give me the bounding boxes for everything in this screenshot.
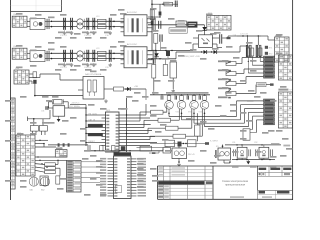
wire C22 C23 stubs (64, 50, 66, 63)
wires to grounds left-mid (154, 59, 173, 91)
resistor RB4 (173, 134, 186, 138)
connector XP5 (275, 35, 289, 62)
resistor RB1 (151, 110, 163, 114)
resistor R87 (vertical) (247, 48, 250, 56)
wire bus right stub (162, 149, 164, 151)
capacitor C64 (159, 34, 162, 41)
node B1 (113, 21, 115, 23)
wire R32 to node (124, 88, 147, 90)
svg-text:VT3: VT3 (188, 111, 191, 113)
capacitor C84 (198, 96, 200, 100)
capacitor C14 (87, 18, 89, 30)
R84 body (264, 68, 275, 71)
node top (151, 3, 153, 5)
capacitor C13 (71, 18, 73, 30)
svg-text:C14 0,1: C14 0,1 (84, 35, 92, 37)
svg-text:+24B_VENT +24B: +24B_VENT +24B (184, 56, 200, 58)
ground under C15 (92, 31, 96, 35)
svg-text:PEC-45: PEC-45 (188, 154, 195, 156)
resistor R42 (112, 146, 116, 151)
title block name cell text (222, 179, 249, 187)
svg-text:принципиальная: принципиальная (225, 184, 246, 187)
choke L12 (two windings) (77, 19, 84, 29)
wire crystal feedback left (49, 102, 53, 108)
resistor R53 (45, 170, 56, 173)
wire XP3 to row (60, 147, 62, 150)
wire C12 C13 stubs (64, 18, 66, 31)
ground under C16 (108, 31, 112, 35)
resistor R102 (188, 140, 197, 147)
DD2 internal sub-block (115, 186, 121, 193)
wire relay top feed (28, 110, 51, 126)
node A2 (51, 53, 53, 55)
net label flag SPI (88, 124, 103, 127)
ground under C23 (70, 63, 74, 67)
connector XP3 (55, 150, 67, 158)
capacitor C26 (109, 50, 111, 62)
relay K5 cluster (215, 145, 231, 164)
wire K4 bottom lead (178, 159, 180, 163)
wires U1 right pins (147, 19, 153, 32)
wires base resistors to transistors (163, 105, 202, 136)
vertical resistor RE1 (195, 125, 200, 136)
ground bottom-right (246, 160, 250, 165)
voltage monitor U6 (255, 145, 272, 160)
relay K4 (172, 143, 187, 159)
capacitor C71 (electrolytic) (246, 36, 251, 57)
wires DD2 left pins (108, 159, 114, 196)
wire y58.8 bus (148, 58, 176, 60)
wires U3 left pins (193, 38, 198, 51)
resistor R72v (163, 65, 167, 76)
module label box (169, 28, 187, 33)
svg-text:CLK 16MHz: CLK 16MHz (69, 106, 80, 108)
resistor R51 (45, 163, 56, 166)
wires XP2 right pins middle (35, 156, 67, 172)
revision box top-left (11, 0, 62, 12)
svg-text:R71: R71 (269, 48, 272, 50)
R91 body (264, 99, 275, 102)
resistor R41 (100, 146, 104, 151)
value labels row 1 (60, 16, 110, 37)
wires U3 right pins (212, 38, 222, 48)
ground under C24 (86, 63, 90, 67)
wire bus 1 left segment (53, 20, 78, 22)
wires XP2 right pins upper (35, 140, 56, 147)
node A1 (51, 21, 53, 23)
diode VD32 mark (127, 87, 130, 91)
ground under C25 (92, 63, 96, 67)
DD2 right net labels (138, 158, 147, 197)
wire crystal feedback right (63, 102, 68, 108)
buzzer BA1 (29, 177, 38, 192)
wire y52 diode link (176, 51, 240, 53)
ground below G1 (57, 116, 61, 122)
capacitor C53 (68, 143, 70, 146)
capacitor C52 (63, 143, 65, 146)
wires transistor emitters to right (169, 113, 249, 126)
wire row to supply bus (48, 145, 88, 151)
svg-text:RESET: RESET (89, 141, 96, 143)
R86 body (264, 75, 275, 78)
DD2 left net labels (100, 158, 106, 197)
wire RE1 leads (196, 113, 198, 141)
transistor VT3 (190, 96, 199, 114)
wires relay leads down (33, 131, 46, 135)
junction dots on DD1 bus (126, 114, 127, 134)
capacitor C23 (71, 50, 73, 62)
inductor L24 (98, 57, 107, 61)
svg-text:C92: C92 (254, 142, 257, 144)
capacitor C61 (175, 1, 178, 8)
resistor R101 (165, 140, 175, 146)
ground below DA1 (104, 99, 108, 103)
capacitor C83 (186, 96, 188, 100)
R92 body (264, 103, 275, 106)
voltage regulator DA1 (83, 73, 104, 99)
title block revision table lines (158, 166, 214, 199)
wire down from DA1 out (145, 89, 147, 100)
connector XP2 (16, 133, 35, 176)
terminal strip XT1 (11, 98, 16, 189)
svg-text:DAT_IN: DAT_IN (89, 118, 96, 121)
node DA1 out (125, 88, 127, 90)
wire bus y24.8 (148, 24, 205, 26)
resistor R63 (154, 33, 158, 43)
diode VD74 mark (214, 50, 217, 54)
wires net labels to RP (226, 62, 231, 94)
ground under C14 (86, 31, 90, 35)
svg-text:+24B: +24B (232, 35, 237, 37)
R94 body (264, 110, 275, 113)
capacitor C51 (58, 143, 60, 146)
nodes electrolytic bus (242, 35, 259, 36)
wires bus to DD1 (85, 114, 101, 143)
optocoupler U4 (243, 129, 257, 140)
crystal ZQ1 (52, 99, 63, 104)
diode VD72 (166, 51, 170, 59)
resistor R61 (164, 2, 173, 6)
connector X1 (12, 14, 27, 27)
title block footer marks (230, 196, 272, 198)
title block right section headers (259, 168, 292, 194)
capacitor C16 (109, 18, 111, 30)
wire supply bus above DD2 (88, 150, 163, 152)
svg-text:C91: C91 (232, 142, 235, 144)
wire top horizontal (152, 3, 178, 5)
wire XS3 pin to R3 (29, 73, 33, 75)
svg-text:C22 0,1: C22 0,1 (60, 67, 68, 69)
DD1 left net labels (71, 103, 97, 143)
wires DD2 right pins (131, 159, 137, 196)
R97 body (264, 122, 275, 125)
net label flag OBMEN (88, 133, 103, 136)
svg-text:Схема электрическая: Схема электрическая (222, 179, 249, 183)
capacitor C62 (158, 21, 161, 29)
R96 body (264, 118, 275, 121)
transistor VT2 (177, 96, 186, 114)
wires DD2 to K4 cluster (137, 148, 164, 155)
net labels mid-right column (218, 60, 231, 98)
diode VD31 (33, 80, 36, 84)
capacitor C41 (140, 146, 152, 151)
wire fan DD1 to driver stage (127, 104, 174, 146)
wire vertical bus right of DD1 (126, 98, 128, 152)
common-mode choke box L11 (30, 18, 45, 29)
pin header XP6 (278, 55, 292, 80)
svg-text:K_VENT: K_VENT (210, 141, 219, 143)
wires U1 left pins (121, 19, 125, 32)
junction dots row 2 (64, 53, 111, 60)
svg-text:VT4: VT4 (199, 111, 202, 113)
net tick U3 out (227, 35, 237, 39)
inductor L14 (98, 25, 107, 29)
terminal block XT2 (67, 161, 82, 193)
relay K3 (40, 176, 48, 185)
misc reference labels (5, 2, 293, 202)
net labels bottom-right (232, 142, 290, 146)
resistor R31 (33, 72, 37, 78)
wire bus 2 left segment (53, 52, 78, 54)
wire choke to C21 (45, 52, 53, 54)
buzzer BA2 (40, 177, 49, 192)
wires U2 left pins (121, 51, 125, 64)
capacitor C82 (174, 96, 176, 100)
wire cross y17 (148, 16, 160, 18)
wire driver supply bus (150, 94, 210, 96)
wire y52 vertical (175, 52, 177, 59)
svg-text:PB_CLK0: PB_CLK0 (89, 113, 97, 115)
wire X1 to choke (27, 20, 30, 22)
DD1 internal pin name columns (106, 115, 118, 151)
diode VD63 into opto (202, 25, 206, 35)
connector X2 (12, 46, 27, 59)
R81 body (264, 56, 275, 59)
inductor L13 (98, 19, 107, 23)
resistor RB3 (166, 126, 179, 130)
ground under C13 (70, 31, 74, 35)
svg-text:VT2: VT2 (176, 111, 179, 113)
node relay feed (33, 118, 35, 120)
ground under C22 (63, 63, 67, 67)
capacitor C72 (electrolytic) (256, 36, 261, 57)
svg-text:C31: C31 (41, 111, 44, 113)
svg-text:C71 C72: C71 C72 (240, 33, 249, 35)
oscillator G1 box (53, 106, 65, 117)
capacitor C12 (64, 18, 66, 30)
title block document number (dark band) (158, 181, 212, 184)
wire R5x to XT strip (55, 160, 60, 176)
capacitor C73 box (170, 62, 177, 78)
wire y52 to top boxes (240, 46, 248, 52)
input resistor RP4 (226, 92, 236, 96)
connector XS3 (14, 68, 29, 84)
wire R63 C64 to bus (156, 42, 161, 51)
svg-text:BA2: BA2 (41, 189, 45, 192)
svg-text:A2 DC/DC: A2 DC/DC (127, 43, 138, 46)
svg-text:C24 0,1: C24 0,1 (84, 67, 92, 69)
diode VD71 (154, 51, 158, 59)
nodes bus y50.5 (155, 50, 173, 51)
labels VT1-VT4 (163, 111, 202, 113)
resistor R62 (150, 10, 154, 20)
inductor L23 (98, 51, 107, 55)
node bus-108 (85, 107, 87, 109)
nodes y58.8 (151, 58, 168, 59)
wire vertical feed from top (151, 0, 153, 51)
svg-text:DA1 KP142EH5A: DA1 KP142EH5A (85, 73, 102, 76)
drawing frame right border (292, 0, 294, 200)
capacitor C17 at U1 output (153, 18, 156, 32)
wire bus y50.5 (148, 50, 193, 52)
node y24.8 (151, 24, 152, 25)
resistor RB2 (158, 118, 171, 122)
capacitor C24 (87, 50, 89, 62)
resistor R111 (163, 148, 171, 154)
svg-text:R72: R72 (269, 54, 272, 56)
resistor R88 (vertical) (251, 48, 254, 56)
node y17 (151, 16, 152, 17)
ground K4 (177, 163, 181, 167)
input resistor RP1 (226, 62, 236, 66)
wire osc output (68, 107, 86, 109)
filter module Z1 (176, 21, 186, 27)
R95 body (264, 114, 275, 117)
capacitor C25 (93, 50, 95, 62)
ground left-mid 1 (152, 91, 156, 95)
voltage monitor U5 (234, 145, 251, 160)
wires RP to resistor rows (236, 58, 264, 94)
capacitor C22 (64, 50, 66, 62)
nodes y52 (201, 51, 212, 52)
wire bottom cluster bus (150, 143, 205, 144)
microcontroller DD1 (106, 110, 120, 152)
title block right section (258, 166, 293, 199)
wire DA1 input stub (78, 89, 83, 91)
diode VD101 (178, 142, 182, 147)
label XP7 header (278, 89, 291, 92)
pin header XP7 (278, 92, 292, 128)
nodes bottom-right bus (236, 144, 262, 145)
wire choke L12 out (83, 20, 124, 22)
wires right verticals to resistor rows (237, 101, 264, 133)
capacitor C31 (41, 106, 49, 112)
relay K1 (30, 126, 38, 132)
wire electrolytic bus (237, 35, 261, 37)
wire DA1 output (104, 88, 114, 90)
wire second vertical (159, 4, 161, 17)
DC-DC converter module U1 (124, 11, 147, 36)
resistor R52 (45, 167, 56, 170)
diode VD62 (159, 12, 162, 16)
transistor VT4 (200, 96, 209, 114)
junction dots driver bus (161, 94, 205, 95)
wire +5V stub to bus (70, 105, 86, 109)
polarity ticks (265, 46, 272, 56)
connector XP4 (207, 13, 231, 30)
DD2 internal pin name columns (114, 158, 130, 196)
ground left-mid 2 (171, 89, 175, 93)
nodes lower bus (236, 159, 270, 160)
relay K2 (39, 126, 47, 132)
wire choke L22 out (83, 52, 124, 54)
wires DD1 right pins (119, 115, 127, 146)
node B2 (113, 53, 115, 55)
svg-text:+5B: +5B (134, 86, 138, 88)
capacitor C27 at U2 output (153, 50, 156, 64)
ground under C26 (108, 63, 112, 67)
resistor R32 (114, 87, 124, 91)
drawing frame left border (10, 0, 12, 200)
resistor R89 (vertical) (259, 48, 263, 56)
R93 body (264, 107, 275, 110)
optocoupler U3 (198, 35, 212, 48)
diode VD73 mark (204, 50, 207, 54)
R82 body (264, 60, 275, 63)
node R31-bus (34, 95, 36, 97)
net label box PWR (256, 83, 273, 87)
wire bottom-right bus lower (232, 159, 275, 161)
value labels row 2 (60, 48, 110, 69)
R85 body (264, 71, 275, 74)
junction dots row 1 (64, 21, 111, 28)
capacitor C63 (219, 34, 222, 44)
net arrow bottom (205, 141, 219, 145)
svg-text:C12 0,1: C12 0,1 (60, 35, 68, 37)
wire U3 to cap bus (222, 36, 237, 38)
title block left column texts (158, 167, 185, 198)
IC DD2 (114, 156, 132, 199)
IC DD2 label bar (114, 152, 132, 155)
wire choke to C11 (45, 20, 53, 22)
wire XS3 lower pin (29, 80, 32, 82)
DC-DC module A3 (dark) (187, 22, 197, 28)
title block outline (158, 166, 293, 199)
svg-text:BA1: BA1 (30, 189, 34, 192)
wire bottom-right bus top (225, 144, 281, 146)
wire X2 to choke (27, 52, 30, 54)
wire bus down to DD2 (89, 145, 91, 151)
wire vertical bus to DD1 (85, 108, 87, 146)
capacitor C81 (160, 96, 162, 100)
DC-DC converter module U2 (124, 43, 147, 68)
wire R31 down to bus (34, 84, 36, 96)
junction dots supply bus (94, 150, 130, 151)
common-mode choke box L21 (30, 50, 45, 61)
choke L22 (two windings) (77, 51, 84, 61)
ground under C12 (63, 31, 67, 35)
wires U2 right pins (147, 51, 153, 64)
resistor R54 (56, 176, 60, 184)
capacitor C21 (electrolytic) (47, 51, 50, 61)
resistor R71v (152, 65, 156, 79)
diode VD41 (121, 146, 126, 150)
wire K4 top lead (178, 145, 180, 149)
wire bus row3 to DA1 (35, 95, 83, 97)
R83 body (264, 64, 275, 67)
diode VD61 (151, 21, 154, 25)
input resistor RP2 (226, 72, 236, 76)
svg-text:X7: X7 (289, 90, 291, 92)
wire XS3 to DA1 input (29, 74, 83, 80)
input resistor RP3 (226, 82, 236, 86)
node K4 bottom (178, 161, 180, 163)
wire bus to XP5 (261, 36, 275, 40)
wires DD1 left pins (102, 115, 106, 146)
capacitor C11 (electrolytic) (47, 19, 50, 29)
transistor VT1 (165, 96, 174, 114)
wires R87-R89 to rows (248, 56, 264, 73)
